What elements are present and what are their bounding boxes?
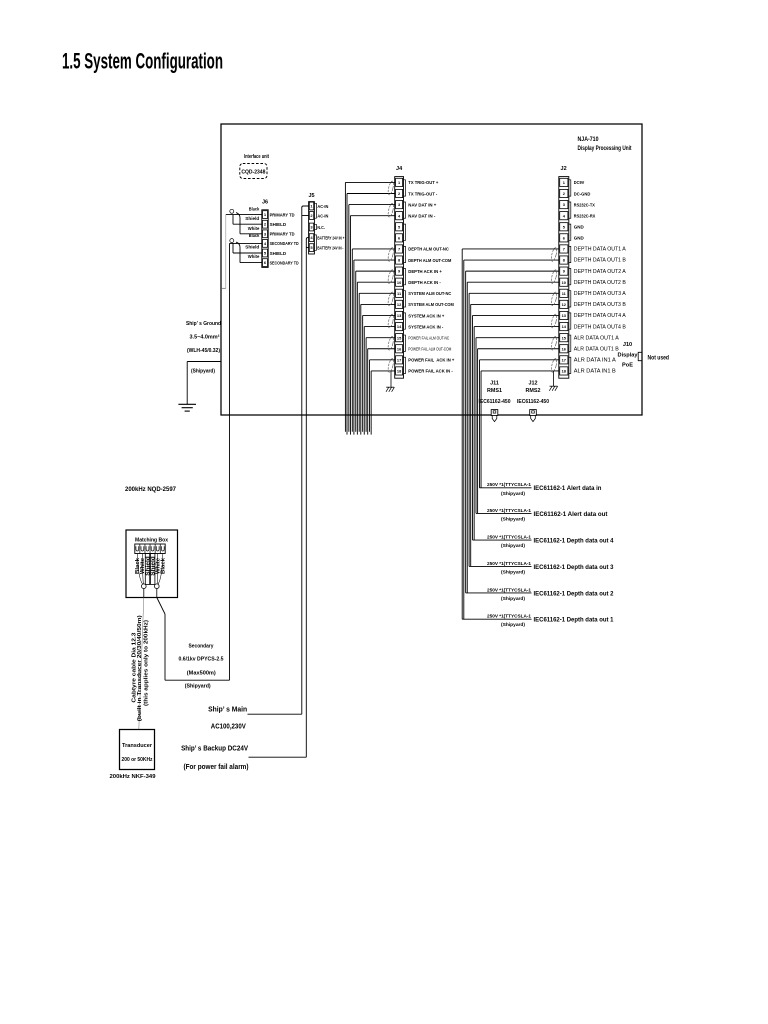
svg-text:(Shipyard): (Shipyard) (191, 369, 215, 375)
svg-text:DEPTH DATA OUT2 B: DEPTH DATA OUT2 B (574, 280, 627, 286)
J6 primary cable stub to chassis (221, 215, 226, 289)
matching box shield rails (145, 554, 155, 585)
svg-text:200 or 50KHz: 200 or 50KHz (122, 757, 153, 763)
svg-text:J10: J10 (623, 342, 632, 348)
svg-text:SHIELD: SHIELD (270, 251, 287, 256)
svg-text:(this applies only to 200kHz): (this applies only to 200kHz) (144, 620, 150, 706)
svg-text:(Shipyard): (Shipyard) (185, 684, 211, 690)
svg-text:DEPTH ALM OUT-NC: DEPTH ALM OUT-NC (408, 247, 449, 253)
svg-text:0.6/1kv DPYCS-2.5: 0.6/1kv DPYCS-2.5 (179, 657, 225, 663)
svg-text:RS232C-RX: RS232C-RX (574, 213, 596, 219)
svg-text:(Shipyard): (Shipyard) (501, 516, 525, 522)
transducer box (120, 730, 155, 770)
label Ship's Backup DC24V (181, 746, 248, 772)
svg-text:POWER FAIL ACK IN +: POWER FAIL ACK IN + (408, 358, 454, 364)
svg-text:IEC61162-1 Alert data out: IEC61162-1 Alert data out (534, 511, 609, 518)
connector J10 Display PoE (618, 342, 642, 369)
J6 primary TD wires (226, 209, 262, 234)
connector J11 RMS1 IEC61162-450 (479, 381, 511, 422)
J6 secondary TD wires (230, 239, 262, 263)
svg-text:250V *1(TTYCSLA-1: 250V *1(TTYCSLA-1 (487, 535, 531, 541)
svg-text:250V *1(TTYCSLA-1: 250V *1(TTYCSLA-1 (487, 614, 531, 620)
svg-text:J2: J2 (561, 166, 567, 172)
svg-text:NAV DAT IN -: NAV DAT IN - (408, 213, 435, 219)
svg-text:(Shipyard): (Shipyard) (501, 491, 525, 497)
svg-text:IEC61162-1 Depth data out 1: IEC61162-1 Depth data out 1 (534, 617, 614, 624)
svg-text:Ship’ s Main: Ship’ s Main (208, 707, 247, 714)
svg-text:GND: GND (574, 236, 584, 242)
svg-text:17: 17 (397, 357, 401, 362)
svg-text:DEPTH DATA OUT4 B: DEPTH DATA OUT4 B (574, 324, 627, 330)
svg-text:SHIELD: SHIELD (270, 222, 287, 227)
svg-text:NAV DAT IN +: NAV DAT IN + (408, 202, 436, 208)
svg-text:DEPTH DATA OUT2 A: DEPTH DATA OUT2 A (574, 269, 627, 275)
svg-text:SECONDARY TD: SECONDARY TD (270, 260, 300, 265)
svg-text:NJA-710: NJA-710 (578, 136, 599, 143)
svg-text:(Shipyard): (Shipyard) (501, 543, 525, 549)
svg-text:J11: J11 (490, 381, 499, 387)
svg-text:250V *1(TTYCSLA-1: 250V *1(TTYCSLA-1 (487, 587, 531, 593)
svg-text:BATTERY 24V IN -: BATTERY 24V IN - (317, 245, 343, 250)
matching box terminal strip (135, 544, 165, 554)
svg-text:POWER FAIL ALM OUT-NC: POWER FAIL ALM OUT-NC (408, 335, 449, 340)
wire matching box to secondary cable (157, 589, 165, 614)
svg-text:Secondary: Secondary (189, 644, 215, 650)
wire DC battery from J5 (306, 238, 308, 758)
J2 external wires to IEC61162 lines (462, 249, 559, 619)
svg-text:17: 17 (562, 357, 566, 362)
svg-text:Display Processing Unit: Display Processing Unit (578, 145, 633, 152)
J6 pin labels (270, 212, 300, 265)
svg-text:Transducer: Transducer (122, 743, 153, 749)
connector J4 (395, 166, 406, 378)
wire ship's ground (187, 362, 221, 405)
wire AC mains from J5 (302, 206, 309, 714)
svg-text:POWER FAIL ACK IN -: POWER FAIL ACK IN - (408, 369, 453, 375)
svg-text:200kHz NKF-349: 200kHz NKF-349 (110, 774, 156, 780)
svg-text:DC-GND: DC-GND (574, 191, 591, 197)
svg-text:RS232C-TX: RS232C-TX (574, 202, 596, 208)
label secondary cable (179, 644, 225, 690)
interface unit CQD-2348 dashed box (240, 164, 267, 179)
svg-text:IEC61162-1 Depth data out 3: IEC61162-1 Depth data out 3 (534, 564, 614, 571)
svg-text:(built in Transducer 20/30/40/: (built in Transducer 20/30/40/50m) (137, 615, 143, 721)
transducer cable rotated labels (132, 615, 150, 721)
label Ship's Main AC100,230V (208, 707, 247, 731)
svg-text:ALR DATA OUT1 B: ALR DATA OUT1 B (574, 346, 620, 352)
svg-text:250V *1(TTYCSLA-1: 250V *1(TTYCSLA-1 (487, 508, 531, 514)
J5 pin labels (317, 204, 344, 251)
connector J5 (308, 193, 316, 254)
svg-text:J5: J5 (308, 193, 314, 199)
svg-text:IEC61162-450: IEC61162-450 (479, 399, 511, 405)
svg-text:DEPTH DATA OUT4 A: DEPTH DATA OUT4 A (574, 313, 627, 319)
wire secondary cable J6 to matching box (165, 243, 230, 680)
svg-text:Interface unit: Interface unit (244, 154, 269, 160)
svg-text:250V *1(TTYCSLA-1: 250V *1(TTYCSLA-1 (487, 561, 531, 567)
display processing unit box NJA-710 (221, 124, 642, 415)
svg-text:TX TRIG-OUT +: TX TRIG-OUT + (408, 180, 438, 186)
svg-text:Shield: Shield (245, 245, 259, 250)
svg-text:TX TRIG-OUT -: TX TRIG-OUT - (408, 191, 437, 197)
svg-text:Matching Box: Matching Box (135, 538, 169, 544)
svg-text:250V *1(TTYCSLA-1: 250V *1(TTYCSLA-1 (487, 482, 531, 488)
svg-text:PRIMARY TD: PRIMARY TD (270, 212, 296, 217)
svg-text:Not used: Not used (648, 355, 670, 362)
svg-text:SYSTEM ALM OUT-NC: SYSTEM ALM OUT-NC (408, 291, 451, 297)
IEC61162 line labels (487, 482, 614, 628)
svg-text:J12: J12 (529, 381, 538, 387)
svg-text:Ship’ s Backup DC24V: Ship’ s Backup DC24V (181, 746, 248, 753)
svg-text:AC-IN: AC-IN (317, 204, 329, 209)
svg-text:200kHz NQD-2597: 200kHz NQD-2597 (125, 486, 176, 493)
svg-text:N.C.: N.C. (317, 225, 325, 230)
svg-text:DEPTH ACK IN -: DEPTH ACK IN - (408, 280, 441, 286)
svg-text:(Max500m): (Max500m) (187, 671, 216, 677)
svg-text:DEPTH DATA OUT1 A: DEPTH DATA OUT1 A (574, 247, 627, 253)
svg-text:Display: Display (618, 353, 639, 359)
svg-text:White: White (248, 254, 260, 259)
svg-text:7: 7 (398, 247, 400, 252)
J2 twisted pair symbols (550, 247, 557, 373)
svg-text:AC100,230V: AC100,230V (211, 724, 246, 731)
svg-text:RMS1: RMS1 (487, 388, 502, 394)
J2 cable shield to chassis ground (549, 371, 557, 391)
svg-text:SYSTEM ACK IN -: SYSTEM ACK IN - (408, 324, 443, 330)
svg-text:10: 10 (397, 280, 401, 285)
matching box (126, 530, 178, 598)
svg-text:DEPTH DATA OUT3 A: DEPTH DATA OUT3 A (574, 291, 627, 297)
svg-text:ALR DATA OUT1 A: ALR DATA OUT1 A (574, 335, 620, 341)
svg-text:PRIMARY TD: PRIMARY TD (270, 232, 296, 237)
J6 wire labels Black/Shield/White (245, 207, 259, 260)
svg-text:J4: J4 (396, 166, 403, 172)
svg-text:1.5 System Configuration: 1.5 System Configuration (62, 49, 223, 74)
svg-text:White: White (248, 226, 260, 231)
svg-text:SYSTEM ACK IN +: SYSTEM ACK IN + (408, 313, 444, 319)
svg-text:(Shipyard): (Shipyard) (501, 569, 525, 575)
wire matching box to transducer (139, 589, 144, 730)
svg-text:DC9V: DC9V (574, 180, 585, 186)
svg-text:Black: Black (249, 207, 260, 212)
svg-text:CQD-2348: CQD-2348 (241, 169, 265, 175)
J2 pin labels (574, 180, 627, 374)
svg-text:(For power fail alarm): (For power fail alarm) (184, 764, 249, 771)
svg-text:ALR DATA IN1 B: ALR DATA IN1 B (574, 369, 617, 375)
svg-text:(Shipyard): (Shipyard) (501, 622, 525, 628)
svg-text:PoE: PoE (622, 363, 633, 369)
connector J2 (559, 166, 571, 378)
svg-text:GND: GND (574, 225, 584, 231)
svg-text:(Shipyard): (Shipyard) (501, 596, 525, 602)
svg-text:Ship’ s Ground: Ship’ s Ground (186, 321, 221, 327)
svg-text:DEPTH DATA OUT1 B: DEPTH DATA OUT1 B (574, 258, 627, 264)
svg-text:SECONDARY TD: SECONDARY TD (270, 241, 300, 246)
J4 pin labels (408, 180, 454, 375)
earth ground symbol (178, 404, 196, 411)
J4 external wires bundle (345, 182, 394, 434)
svg-text:SYSTEM ALM OUT-COM: SYSTEM ALM OUT-COM (408, 302, 454, 308)
matching box wire labels (135, 556, 167, 576)
svg-text:10: 10 (562, 280, 566, 285)
svg-text:IEC61162-1 Depth data out 2: IEC61162-1 Depth data out 2 (534, 590, 614, 597)
svg-text:DEPTH ALM OUT-COM: DEPTH ALM OUT-COM (408, 258, 451, 264)
connector J6 (262, 200, 268, 268)
J4 twisted pair symbols (387, 181, 394, 373)
svg-text:7: 7 (563, 247, 565, 252)
svg-text:DEPTH DATA OUT3 B: DEPTH DATA OUT3 B (574, 302, 627, 308)
label NJA-710 Display Processing Unit (578, 136, 633, 152)
wire ship's backup (249, 756, 307, 758)
svg-text:DEPTH ACK IN +: DEPTH ACK IN + (408, 269, 442, 275)
svg-text:ALR DATA IN1 A: ALR DATA IN1 A (574, 358, 617, 364)
svg-text:J6: J6 (262, 200, 268, 206)
J4 cable shield to chassis ground (386, 371, 394, 392)
svg-text:AC-IN: AC-IN (317, 213, 329, 218)
svg-text:3.5~4.0mm²: 3.5~4.0mm² (190, 334, 220, 341)
connector J12 RMS2 IEC61162-450 (517, 381, 549, 422)
wire ship's main (248, 713, 302, 715)
svg-text:IEC61162-1 Alert data in: IEC61162-1 Alert data in (534, 485, 602, 492)
svg-text:BATTERY 24V IN +: BATTERY 24V IN + (317, 235, 344, 240)
svg-text:IEC61162-450: IEC61162-450 (517, 399, 549, 405)
matching box cable junctions (137, 554, 163, 589)
svg-text:POWER FAIL ALM OUT-COM: POWER FAIL ALM OUT-COM (408, 346, 451, 351)
label Ship's Ground (186, 321, 221, 375)
svg-text:RMS2: RMS2 (526, 388, 541, 394)
svg-text:(WLH-45/0.32): (WLH-45/0.32) (187, 348, 220, 354)
svg-text:Shield: Shield (245, 216, 259, 221)
svg-text:IEC61162-1 Depth data out 4: IEC61162-1 Depth data out 4 (534, 538, 614, 545)
